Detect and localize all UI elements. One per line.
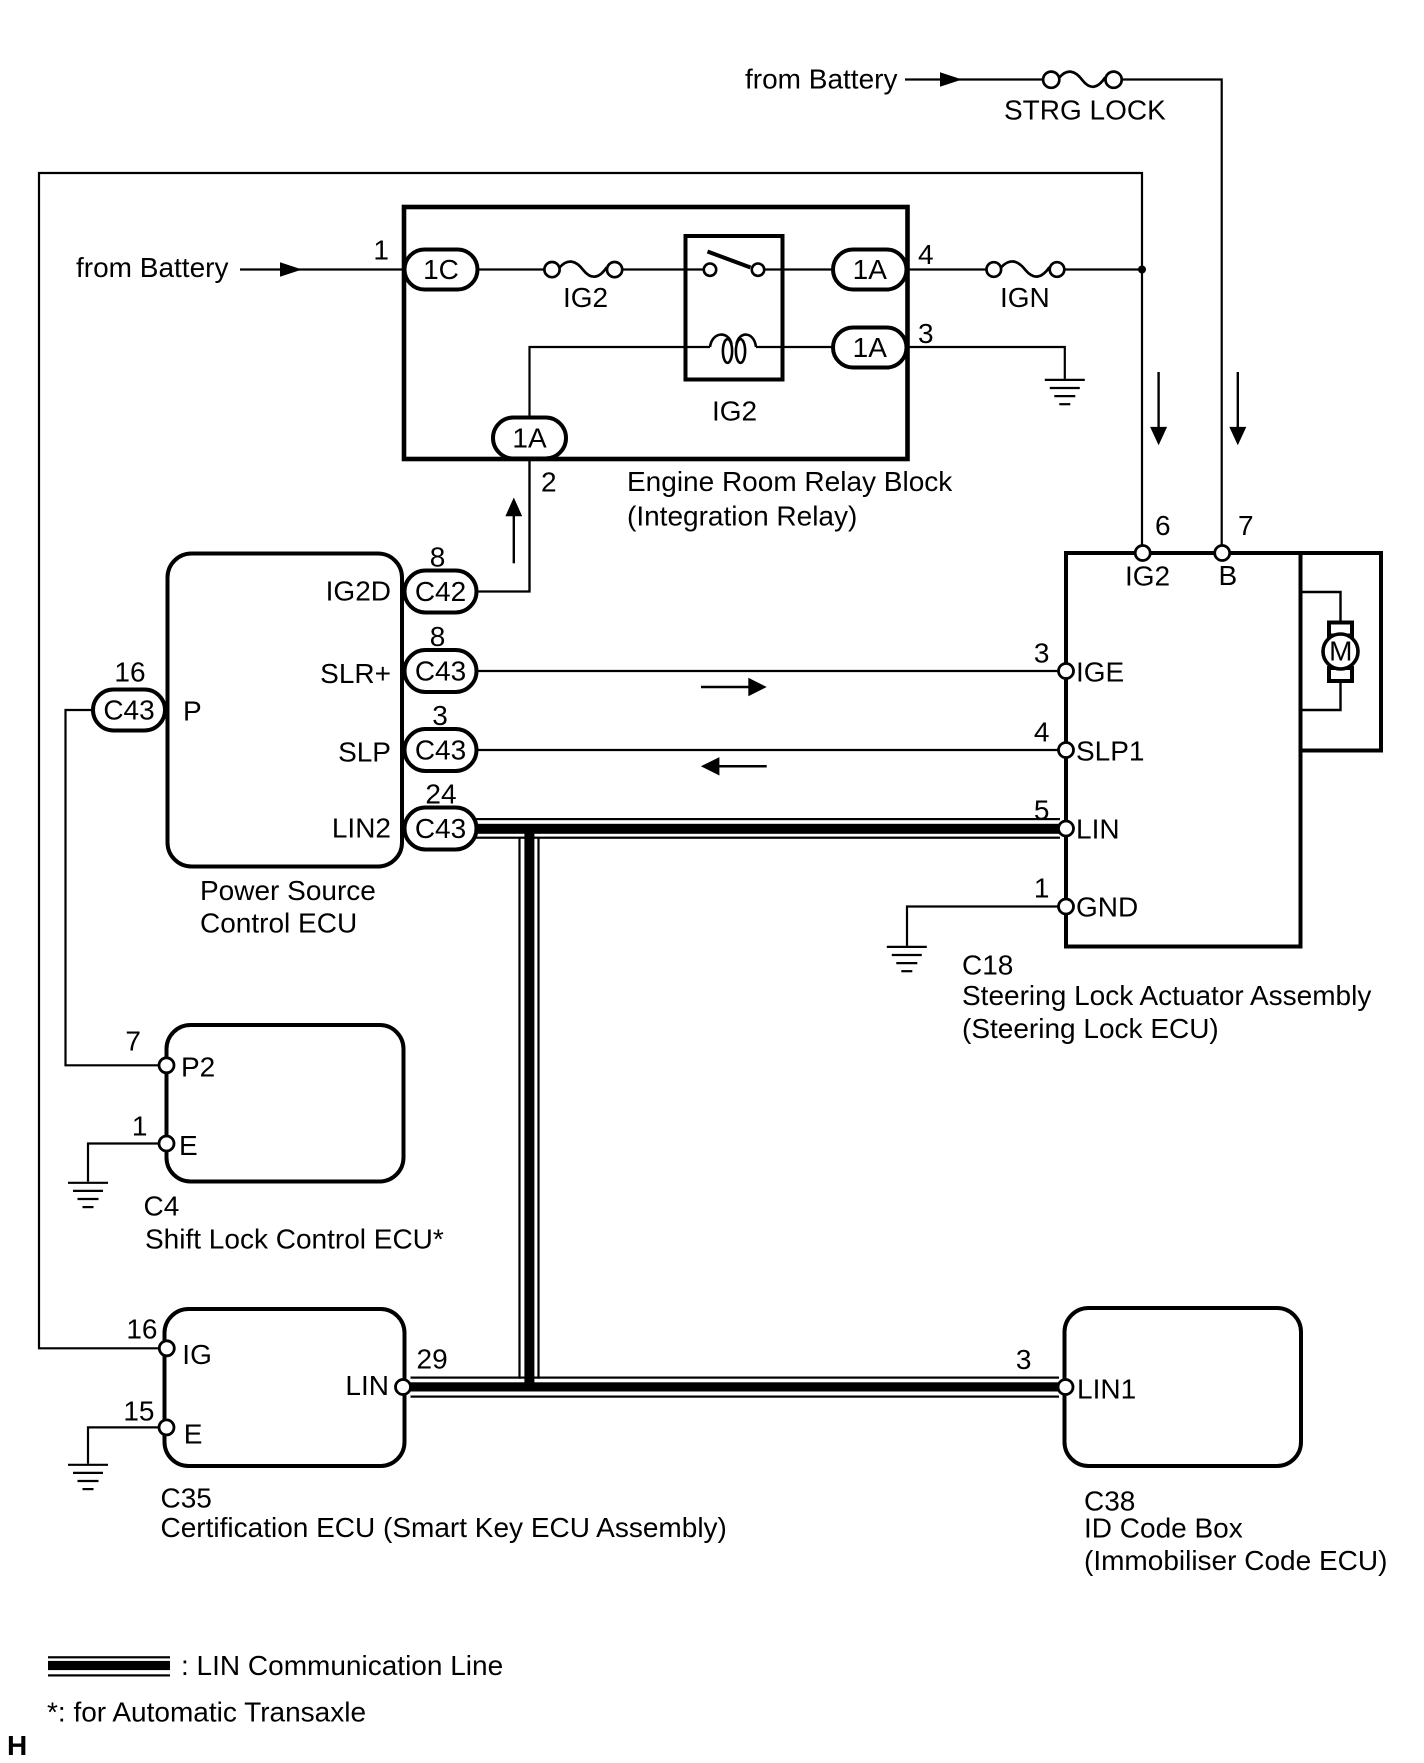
svg-text:C35: C35 (161, 1483, 212, 1514)
svg-text:29: 29 (417, 1344, 448, 1375)
svg-text:: LIN Communication Line: : LIN Communication Line (181, 1650, 503, 1681)
svg-text:LIN: LIN (1076, 814, 1120, 845)
wire relay switch to pin 4 oval (764, 268, 833, 270)
svg-text:IG2D: IG2D (326, 576, 391, 607)
svg-text:Steering Lock Actuator Assembl: Steering Lock Actuator Assembly (962, 980, 1371, 1011)
svg-text:7: 7 (1238, 510, 1254, 541)
svg-text:1A: 1A (853, 254, 888, 285)
wire cert E to ground (88, 1427, 159, 1463)
svg-text:3: 3 (1034, 638, 1050, 669)
svg-text:4: 4 (1034, 717, 1050, 748)
pin circle cert pin 29 LIN (396, 1380, 411, 1395)
connector pin oval relay pin 3 (1A) (833, 328, 907, 368)
up arrow annotation (pin 2 feed) (505, 498, 522, 564)
junction dot IGN node (1138, 266, 1146, 274)
motor M1 body (1323, 634, 1358, 669)
pin circle steering pin 1 GND (1059, 899, 1074, 914)
svg-text:P2: P2 (181, 1052, 215, 1083)
svg-text:SLR+: SLR+ (320, 658, 391, 689)
wire fuse IG2 to relay switch (623, 268, 704, 270)
pin circle shift lock pin 1 E (159, 1136, 174, 1151)
svg-text:8: 8 (430, 542, 446, 573)
legend LIN line symbol (48, 1656, 170, 1676)
svg-text:6: 6 (1155, 510, 1171, 541)
svg-text:5: 5 (1034, 795, 1050, 826)
arrow from battery (left) (280, 262, 302, 276)
svg-text:GND: GND (1076, 892, 1138, 923)
wire SLR+ wire to IGE (476, 670, 1059, 672)
svg-text:from Battery: from Battery (76, 252, 228, 283)
relay switch contact circles (704, 264, 716, 276)
svg-text:C42: C42 (415, 576, 466, 607)
wire relay coil right wire (756, 346, 833, 348)
power source control ECU box (168, 554, 403, 867)
engine room relay block (integration relay) outline (404, 207, 908, 459)
ground shift lock E (68, 1183, 108, 1207)
svg-text:Shift Lock Control ECU*: Shift Lock Control ECU* (145, 1224, 444, 1255)
svg-text:M: M (1329, 636, 1352, 667)
svg-text:IG: IG (182, 1339, 212, 1370)
down arrow annotation (B feed) (1229, 372, 1246, 445)
wire shift lock E to ground (88, 1144, 159, 1182)
svg-text:IGE: IGE (1076, 657, 1124, 688)
svg-text:IG2: IG2 (563, 282, 608, 313)
svg-text:IG2: IG2 (712, 396, 757, 427)
wire IGN net loop: top rail and left drop to IG pin (39, 173, 1142, 1348)
svg-text:SLP1: SLP1 (1076, 736, 1145, 767)
svg-text:(Steering Lock ECU): (Steering Lock ECU) (962, 1013, 1219, 1044)
ground steering GND (887, 947, 927, 971)
svg-text:1: 1 (132, 1111, 148, 1142)
LIN communication line vertical branch (518, 828, 539, 1391)
pin circle ID code box pin 3 LIN1 (1058, 1380, 1073, 1395)
relay IG2 inner box (686, 236, 783, 380)
svg-text:E: E (179, 1130, 198, 1161)
wire from battery to STRG LOCK fuse (905, 78, 1043, 80)
pin circle steering pin 3 IGE (1059, 664, 1074, 679)
arrow SLR+ direction (701, 678, 767, 696)
svg-text:LIN1: LIN1 (1077, 1374, 1136, 1405)
svg-text:1A: 1A (512, 423, 547, 454)
svg-text:Power Source: Power Source (200, 875, 376, 906)
svg-text:E: E (184, 1419, 203, 1450)
down arrow annotation (IG2 feed) (1150, 372, 1167, 445)
motor M1 brushes (1329, 623, 1352, 636)
arrow from battery (top) (940, 72, 962, 86)
svg-text:1: 1 (1034, 873, 1050, 904)
svg-text:2: 2 (541, 467, 557, 498)
wire from battery to relay pin 1 (240, 268, 404, 270)
svg-text:IGN: IGN (1000, 282, 1050, 313)
fuse IGN (987, 261, 1065, 276)
wire IGN fuse to junction node (1064, 268, 1142, 270)
svg-text:Certification ECU (Smart Key E: Certification ECU (Smart Key ECU Assembl… (161, 1512, 727, 1543)
wire P wire to shift lock P2 (66, 710, 159, 1065)
pin circle steering pin 7 B (1215, 546, 1230, 561)
connector pin oval relay pin 4 (1A) (833, 250, 907, 290)
svg-text:Control ECU: Control ECU (200, 908, 357, 939)
relay coil (710, 335, 756, 363)
connector pin oval relay pin 2 (1A) (493, 418, 566, 459)
svg-text:(Integration Relay): (Integration Relay) (627, 501, 857, 532)
wire STRG LOCK fuse to node B (pin 7) (1121, 80, 1222, 547)
svg-text:3: 3 (918, 318, 934, 349)
svg-text:15: 15 (123, 1396, 154, 1427)
svg-text:Engine Room Relay Block: Engine Room Relay Block (627, 466, 953, 497)
svg-text:C43: C43 (415, 813, 466, 844)
svg-text:1A: 1A (853, 332, 888, 363)
svg-text:B: B (1219, 560, 1238, 591)
LIN communication line LIN2 to LIN (triple line) (476, 818, 1060, 839)
connector pin oval power ECU pin LIN2 (C43) (405, 808, 477, 850)
ID code box (1065, 1308, 1302, 1466)
svg-text:(Immobiliser Code ECU): (Immobiliser Code ECU) (1084, 1545, 1387, 1576)
pin circle steering pin 6 IG2 (1135, 546, 1150, 561)
pin circle cert pin 16 IG (159, 1341, 174, 1356)
pin circle steering pin 5 LIN (1059, 821, 1074, 836)
svg-text:H: H (7, 1730, 27, 1761)
svg-text:LIN: LIN (345, 1370, 389, 1401)
steering lock actuator assembly box (1066, 553, 1381, 947)
pin circle cert pin 15 E (159, 1420, 174, 1435)
svg-text:C18: C18 (962, 950, 1013, 981)
ground relay pin 3 (1045, 380, 1085, 404)
connector pin oval relay pin 1 (1C) (405, 250, 478, 290)
shift lock control ECU box (167, 1025, 404, 1182)
wire relay pin 2 drop to C42 (476, 458, 530, 592)
svg-text:IG2: IG2 (1125, 561, 1170, 592)
svg-text:24: 24 (425, 779, 456, 810)
connector pin oval power ECU pin SLR+ (C43) (405, 650, 477, 692)
svg-text:7: 7 (125, 1026, 141, 1057)
svg-text:LIN2: LIN2 (332, 813, 391, 844)
svg-text:SLP: SLP (338, 737, 391, 768)
svg-text:STRG LOCK: STRG LOCK (1004, 95, 1166, 126)
wire relay pin 1C to fuse IG2 (477, 268, 545, 270)
relay switch blade (708, 252, 751, 268)
svg-text:C43: C43 (103, 695, 154, 726)
connector pin oval power ECU pin P (C43) (93, 690, 165, 731)
svg-text:P: P (183, 696, 202, 727)
svg-text:C4: C4 (144, 1191, 180, 1222)
svg-text:3: 3 (1016, 1344, 1032, 1375)
wire SLP wire to SLP1 (476, 749, 1059, 751)
motor supply wires (1301, 592, 1341, 623)
fuse STRG LOCK (1043, 72, 1122, 88)
wire GND wire to ground (907, 907, 1059, 946)
svg-text:ID Code Box: ID Code Box (1084, 1513, 1243, 1544)
svg-text:16: 16 (126, 1314, 157, 1345)
svg-text:1: 1 (373, 235, 389, 266)
arrow SLP direction (701, 757, 767, 775)
pin circle shift lock pin 7 P2 (159, 1058, 174, 1073)
svg-text:C43: C43 (415, 735, 466, 766)
svg-text:3: 3 (432, 700, 448, 731)
connector pin oval power ECU pin IG2D (C42) (405, 571, 477, 613)
svg-text:from Battery: from Battery (745, 64, 897, 95)
wire relay coil left wire (530, 347, 711, 592)
LIN communication line LIN(29) to LIN1 (triple line) (411, 1377, 1060, 1398)
wire relay pin 3 to ground (907, 347, 1065, 379)
svg-text:16: 16 (114, 657, 145, 688)
svg-text:8: 8 (430, 621, 446, 652)
svg-text:4: 4 (918, 239, 934, 270)
certification ECU box (165, 1309, 405, 1466)
svg-text:C43: C43 (415, 656, 466, 687)
connector pin oval power ECU pin SLP (C43) (405, 729, 477, 771)
svg-text:*: for Automatic Transaxle: *: for Automatic Transaxle (47, 1697, 366, 1728)
wire relay pin 4 to IGN fuse (907, 268, 988, 270)
svg-text:1C: 1C (423, 254, 459, 285)
fuse IG2 (544, 262, 622, 278)
steering lock ECU / motor divider (1299, 553, 1303, 947)
pin circle steering pin 4 SLP1 (1059, 743, 1074, 758)
ground cert E (68, 1465, 108, 1489)
